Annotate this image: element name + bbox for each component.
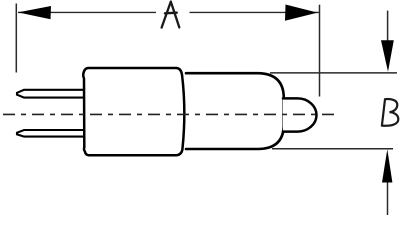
dimension A: right extension line bbox=[319, 5, 321, 97]
dimension B: top arrowhead bbox=[381, 40, 394, 72]
label A bbox=[162, 2, 180, 28]
bottom pin bbox=[17, 130, 85, 137]
top pin bbox=[17, 90, 85, 98]
glass envelope bbox=[186, 73, 284, 149]
dimension A: line left segment bbox=[18, 11, 156, 13]
bulb tip bbox=[283, 98, 316, 131]
dimension B: bottom extension line bbox=[272, 148, 393, 150]
dimension A: line right segment bbox=[190, 11, 320, 13]
dimension B: bottom arrowhead bbox=[382, 149, 392, 182]
dimension A: left arrowhead bbox=[18, 6, 51, 19]
dimension B: bottom line bbox=[387, 181, 389, 215]
label B bbox=[382, 99, 398, 126]
dimension B: top line bbox=[387, 11, 389, 42]
ceramic base bbox=[83, 68, 184, 155]
dimension B: top extension line bbox=[270, 72, 397, 74]
centerline bbox=[0, 113, 334, 115]
dimension A: right arrowhead bbox=[285, 5, 318, 21]
dimension A: left extension line bbox=[15, 4, 17, 73]
